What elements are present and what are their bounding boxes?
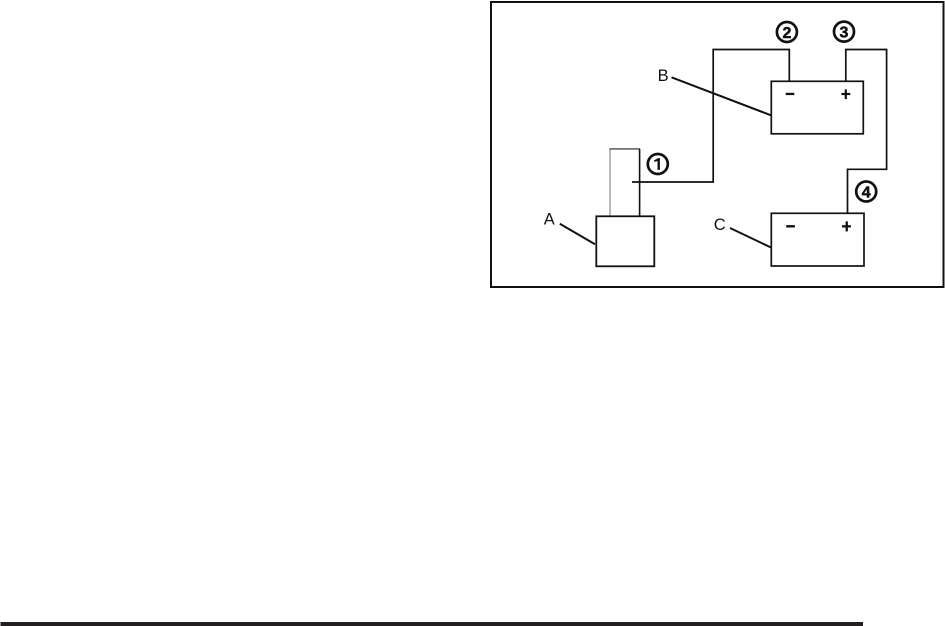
label C	[714, 216, 726, 234]
svg-text:4: 4	[862, 184, 871, 201]
leader line from label B to battery B	[672, 77, 772, 115]
label B	[658, 67, 669, 85]
label A	[544, 211, 555, 229]
component A body box	[596, 216, 654, 266]
component A terminal stem (narrow upright box)	[610, 149, 641, 216]
battery C box	[771, 213, 864, 266]
battery C positive terminal (+)	[842, 221, 851, 231]
wire: battery B negative (node 2) to component A (node 1)	[632, 50, 789, 183]
svg-text:C: C	[714, 216, 726, 234]
battery B positive terminal (+)	[841, 89, 850, 99]
svg-text:2: 2	[782, 25, 791, 42]
battery B box	[771, 81, 863, 134]
battery C negative terminal (-)	[786, 225, 795, 227]
svg-text:B: B	[658, 67, 669, 85]
svg-text:3: 3	[840, 24, 849, 41]
leader line from label C to battery C	[730, 228, 771, 248]
decorative page elements first (unlabeled): diagram frame and footer rule	[491, 2, 944, 287]
circled number 3 (node 3)	[834, 22, 854, 42]
wire: battery B positive (node 3) to battery C positive (node 4)	[846, 50, 887, 214]
battery B negative terminal (-)	[786, 93, 795, 95]
circled number 4 (node 4)	[856, 182, 876, 202]
leader line from label A to component A	[560, 224, 595, 245]
svg-text:A: A	[544, 211, 555, 229]
circled number 1 (node 1)	[648, 154, 668, 174]
circled number 2 (node 2)	[777, 22, 797, 42]
